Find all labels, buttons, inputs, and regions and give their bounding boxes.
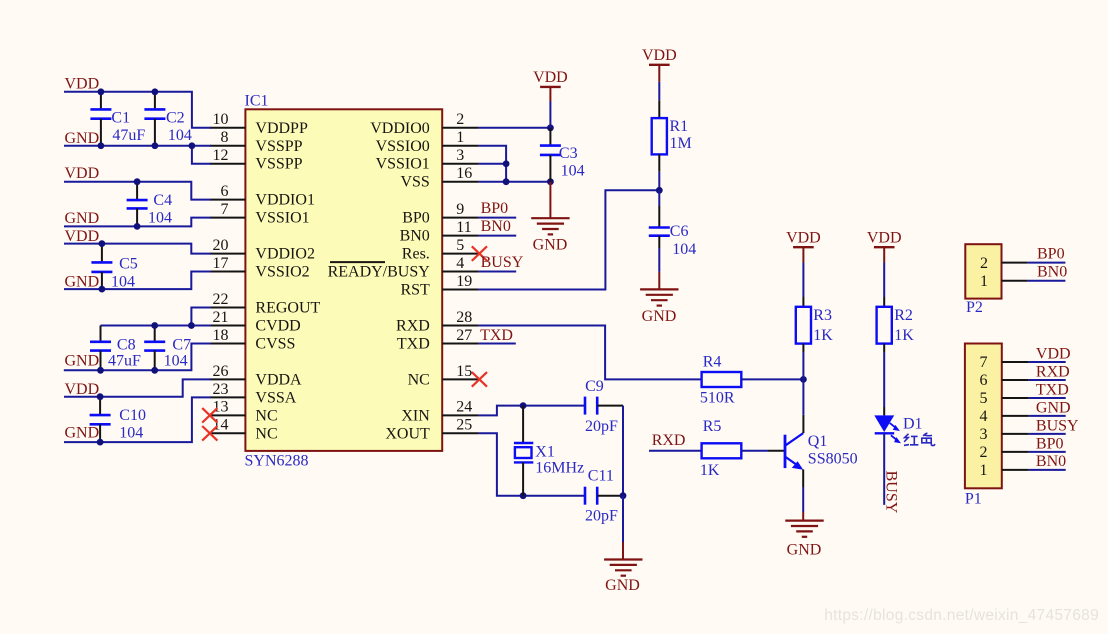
wire pin 1 down to pin 3 node bbox=[479, 146, 507, 164]
wire VDD to R1 bbox=[658, 82, 660, 101]
svg-text:VDD: VDD bbox=[786, 229, 821, 246]
svg-text:104: 104 bbox=[164, 353, 188, 370]
R2 labels bbox=[894, 307, 914, 344]
junction bbox=[134, 178, 141, 185]
lead R1 top bbox=[658, 100, 660, 118]
R3 labels bbox=[813, 307, 833, 344]
junction bbox=[98, 88, 105, 95]
C7 labels bbox=[164, 336, 191, 369]
svg-text:104: 104 bbox=[168, 127, 192, 144]
wire node to C6 bbox=[658, 190, 660, 206]
IC1 pin 9 (BP0) right bbox=[402, 201, 478, 227]
svg-text:VDDIO1: VDDIO1 bbox=[255, 192, 315, 209]
svg-text:28: 28 bbox=[456, 309, 472, 326]
svg-text:RXD: RXD bbox=[1036, 363, 1070, 380]
capacitor C11 bbox=[585, 487, 623, 505]
svg-text:26: 26 bbox=[213, 363, 229, 380]
wire VDD to R3 bbox=[802, 263, 804, 298]
ground symbol below C3 bbox=[531, 218, 569, 234]
junction X1 top bbox=[520, 402, 527, 409]
svg-text:6: 6 bbox=[980, 372, 988, 389]
IC1 pin 11 (BN0) right bbox=[400, 219, 479, 245]
junction bbox=[503, 178, 510, 185]
svg-text:C10: C10 bbox=[119, 407, 146, 424]
svg-text:1: 1 bbox=[980, 462, 988, 479]
svg-text:VSSA: VSSA bbox=[255, 389, 296, 406]
VDD power port above R2 bbox=[867, 229, 902, 247]
IC1 pin 6 (VDDIO1) left bbox=[210, 183, 315, 209]
lead Q1 base bbox=[768, 450, 784, 452]
P2 pin 1 net BN0 bbox=[980, 264, 1067, 291]
VDD power port above C3 bbox=[533, 69, 568, 87]
svg-text:4: 4 bbox=[980, 408, 988, 425]
svg-text:104: 104 bbox=[561, 162, 585, 179]
ground lead (maroon) bbox=[622, 542, 624, 560]
svg-text:20: 20 bbox=[213, 237, 229, 254]
no-connect X pin 13 bbox=[202, 408, 217, 423]
C11 labels bbox=[585, 468, 618, 525]
X1 labels bbox=[535, 444, 584, 477]
IC IC1 SYN6288 body bbox=[245, 109, 442, 451]
svg-text:17: 17 bbox=[213, 255, 229, 272]
svg-text:VSSIO2: VSSIO2 bbox=[255, 264, 309, 281]
svg-text:4: 4 bbox=[456, 255, 464, 272]
ground lead below C6 bbox=[658, 272, 660, 290]
svg-text:RST: RST bbox=[400, 282, 430, 299]
C3 labels bbox=[559, 145, 585, 179]
wire GND rail to pin 8 bbox=[64, 145, 211, 147]
junction bbox=[99, 286, 106, 293]
svg-text:TXD: TXD bbox=[397, 335, 430, 352]
READY/BUSY overline bbox=[330, 261, 385, 263]
C2 labels bbox=[166, 109, 192, 143]
svg-text:5: 5 bbox=[980, 390, 988, 407]
power lead VDD above R2 bbox=[883, 247, 885, 262]
wire R3 to collector node bbox=[802, 352, 804, 379]
capacitor C10 bbox=[90, 397, 111, 442]
svg-text:RXD: RXD bbox=[396, 317, 430, 334]
svg-text:C9: C9 bbox=[585, 378, 604, 395]
junction bbox=[97, 393, 104, 400]
wire RXD stub to R5 bbox=[649, 450, 702, 452]
capacitor C9 bbox=[585, 397, 623, 415]
svg-text:SS8050: SS8050 bbox=[808, 450, 858, 467]
P1 pin 2 net BP0 bbox=[980, 435, 1066, 461]
svg-text:1K: 1K bbox=[700, 462, 720, 479]
junction bbox=[189, 142, 196, 149]
crystal X1 bbox=[514, 406, 533, 496]
svg-text:BP0: BP0 bbox=[1036, 435, 1064, 452]
wire GND rail to pin 23 bbox=[64, 397, 211, 442]
ground lead below C3 bbox=[549, 182, 551, 218]
svg-text:C6: C6 bbox=[670, 223, 689, 240]
IC1 pin 27 (TXD) right bbox=[397, 327, 479, 353]
svg-text:C1: C1 bbox=[111, 109, 130, 126]
svg-text:27: 27 bbox=[456, 327, 472, 344]
svg-text:NC: NC bbox=[255, 425, 277, 442]
capacitor C2 bbox=[144, 92, 165, 146]
svg-text:R1: R1 bbox=[670, 118, 689, 135]
svg-text:REGOUT: REGOUT bbox=[255, 300, 320, 317]
junction bbox=[99, 240, 106, 247]
svg-text:13: 13 bbox=[213, 399, 229, 416]
wire R1 to node bbox=[658, 172, 660, 191]
svg-text:GND: GND bbox=[65, 273, 100, 290]
IC1 pin 2 (VDDIO0) right bbox=[370, 111, 478, 137]
lead R2 bottom bbox=[883, 344, 885, 352]
svg-text:VSSIO1: VSSIO1 bbox=[376, 156, 430, 173]
ground symbol below C6 bbox=[640, 289, 678, 305]
capacitor C5 bbox=[91, 244, 112, 290]
R4 labels bbox=[700, 354, 735, 407]
IC1 pin 19 (RST) right bbox=[400, 273, 478, 299]
IC1 pin 7 (VSSIO1) left bbox=[210, 201, 310, 227]
svg-text:C4: C4 bbox=[153, 192, 172, 209]
svg-text:GND: GND bbox=[605, 577, 640, 594]
wire collector node down bbox=[802, 379, 804, 414]
IC1 pin 16 (VSS) right bbox=[400, 165, 478, 191]
svg-text:21: 21 bbox=[213, 309, 229, 326]
svg-text:R5: R5 bbox=[703, 418, 722, 435]
svg-text:5: 5 bbox=[456, 237, 464, 254]
svg-text:VDD: VDD bbox=[65, 165, 100, 182]
svg-text:Q1: Q1 bbox=[808, 433, 828, 450]
wire VDD lead to pin2 node bbox=[549, 101, 551, 128]
svg-text:GND: GND bbox=[642, 308, 677, 325]
svg-text:47uF: 47uF bbox=[112, 127, 145, 144]
power lead VDD (maroon) bbox=[658, 65, 660, 82]
connector P1 body bbox=[965, 344, 1002, 489]
lead R1 bottom bbox=[658, 154, 660, 171]
wire D1 cathode down / net BUSY bbox=[883, 433, 885, 505]
svg-text:3: 3 bbox=[456, 147, 464, 164]
IC1 pin 20 (VDDIO2) left bbox=[210, 237, 315, 263]
svg-text:BP0: BP0 bbox=[402, 210, 430, 227]
IC1 pin 14 (NC) left bbox=[210, 417, 278, 443]
wire CVDD rail to pin 21 bbox=[191, 324, 210, 326]
svg-text:23: 23 bbox=[213, 381, 229, 398]
P1 pin 5 net TXD bbox=[980, 381, 1069, 407]
svg-text:20pF: 20pF bbox=[585, 508, 618, 525]
C4 labels bbox=[148, 192, 172, 226]
svg-text:VDD: VDD bbox=[867, 229, 902, 246]
P1 pin 4 net GND bbox=[980, 399, 1071, 425]
IC1 pin 26 (VDDA) left bbox=[210, 363, 302, 389]
svg-text:104: 104 bbox=[111, 273, 135, 290]
lead R3 bottom bbox=[802, 344, 804, 352]
capacitor C3 bbox=[540, 128, 561, 182]
transistor Q1 SS8050 bbox=[785, 433, 803, 470]
no-connect X pin 14 bbox=[202, 426, 217, 441]
wire down to ground lead bbox=[622, 496, 624, 542]
svg-text:READY/BUSY: READY/BUSY bbox=[328, 264, 431, 281]
svg-text:R2: R2 bbox=[894, 307, 913, 324]
junction C11/ground bbox=[620, 492, 627, 499]
P1 pin 1 net BN0 bbox=[980, 453, 1067, 479]
VDD power port above R1 bbox=[642, 47, 677, 65]
IC1 pin 13 (NC) left bbox=[210, 399, 278, 425]
wire pin 3 stub bbox=[479, 163, 507, 165]
svg-text:15: 15 bbox=[456, 363, 472, 380]
wire VDD rail to pin 6 bbox=[64, 182, 211, 200]
wire net BN0 stub bbox=[479, 235, 517, 237]
IC1 pin 8 (VSSPP) left bbox=[210, 129, 303, 155]
wire XOUT to C11/X1 bbox=[479, 433, 585, 495]
ground lead Q1 (maroon) bbox=[802, 512, 804, 521]
svg-text:D1: D1 bbox=[903, 416, 923, 433]
svg-text:10: 10 bbox=[213, 111, 229, 128]
wire VDD to R2 bbox=[883, 263, 885, 298]
no-connect X pin 5 bbox=[472, 246, 487, 261]
lead D1 anode bbox=[883, 407, 885, 415]
wire VDD rail to pin 20 bbox=[64, 244, 211, 254]
connector P2 body bbox=[965, 244, 1001, 298]
junction bbox=[98, 142, 105, 149]
resistor R2 bbox=[877, 307, 892, 344]
svg-text:BN0: BN0 bbox=[1036, 453, 1066, 470]
svg-text:104: 104 bbox=[148, 209, 172, 226]
svg-text:12: 12 bbox=[213, 147, 229, 164]
junction bbox=[134, 223, 141, 230]
svg-text:R3: R3 bbox=[813, 307, 832, 324]
wire net BUSY stub bbox=[479, 271, 517, 273]
R5 labels bbox=[700, 418, 721, 479]
svg-text:VDD: VDD bbox=[1036, 345, 1071, 362]
junction bbox=[503, 160, 510, 167]
svg-text:VDD: VDD bbox=[533, 69, 568, 86]
svg-text:P1: P1 bbox=[965, 490, 982, 507]
IC1 pin 22 (REGOUT) left bbox=[210, 291, 321, 317]
P1 pin 6 net RXD bbox=[980, 363, 1070, 389]
svg-text:8: 8 bbox=[221, 129, 229, 146]
svg-text:XIN: XIN bbox=[401, 407, 430, 424]
wire GND rail branch to pin 12 bbox=[192, 146, 211, 164]
wire emitter down bbox=[802, 487, 804, 512]
P1 pin 3 net BUSY bbox=[980, 417, 1080, 443]
IC1 pin 5 (Res.) right bbox=[402, 237, 479, 263]
svg-text:VDD: VDD bbox=[642, 47, 677, 64]
IC1 pin 12 (VSSPP) left bbox=[210, 147, 303, 173]
IC1 pin 10 (VDDPP) left bbox=[210, 111, 308, 137]
IC1 pin 25 (XOUT) right bbox=[385, 417, 478, 443]
svg-text:GND: GND bbox=[1036, 399, 1071, 416]
svg-text:VSSPP: VSSPP bbox=[255, 138, 302, 155]
svg-text:24: 24 bbox=[456, 399, 472, 416]
no-connect X pin 15 bbox=[472, 372, 487, 387]
capacitor C7 bbox=[144, 325, 165, 370]
junction bbox=[152, 88, 159, 95]
svg-text:BP0: BP0 bbox=[1037, 245, 1065, 262]
wire VDD rail to pin 26 bbox=[64, 379, 211, 396]
svg-text:https://blog.csdn.net/weixin_4: https://blog.csdn.net/weixin_47457689 bbox=[824, 607, 1099, 624]
svg-text:BUSY: BUSY bbox=[1036, 417, 1079, 434]
lead R2 top bbox=[883, 297, 885, 307]
svg-text:1: 1 bbox=[980, 273, 988, 290]
svg-text:VDD: VDD bbox=[65, 381, 100, 398]
svg-text:7: 7 bbox=[980, 354, 988, 371]
svg-text:BN0: BN0 bbox=[400, 228, 430, 245]
svg-text:BUSY: BUSY bbox=[481, 254, 524, 271]
svg-text:C8: C8 bbox=[117, 336, 136, 353]
svg-text:TXD: TXD bbox=[480, 327, 513, 344]
ground symbol below crystal bbox=[604, 560, 642, 576]
svg-text:16: 16 bbox=[456, 165, 472, 182]
wire R5 to Q1 base bbox=[741, 450, 768, 452]
svg-text:VSSIO0: VSSIO0 bbox=[376, 138, 430, 155]
Q1 labels bbox=[808, 433, 858, 467]
wire GND rail to pin 18 bbox=[64, 343, 211, 370]
resistor R3 bbox=[796, 307, 811, 344]
wire node down to VSS row bbox=[505, 164, 507, 182]
svg-text:2: 2 bbox=[980, 255, 988, 272]
junction bbox=[152, 142, 159, 149]
junction bbox=[151, 322, 158, 329]
svg-text:C5: C5 bbox=[119, 255, 138, 272]
svg-text:X1: X1 bbox=[535, 444, 555, 461]
C9 labels bbox=[585, 378, 618, 435]
svg-text:BN0: BN0 bbox=[481, 218, 511, 235]
svg-text:GND: GND bbox=[65, 210, 100, 227]
resistor R1 bbox=[652, 118, 667, 154]
IC1 pin 17 (VSSIO2) left bbox=[210, 255, 310, 281]
svg-text:NC: NC bbox=[408, 371, 430, 388]
P1 pin 7 net VDD bbox=[980, 345, 1071, 371]
C10 labels bbox=[119, 407, 146, 441]
svg-text:VSSPP: VSSPP bbox=[255, 156, 302, 173]
svg-text:2: 2 bbox=[980, 444, 988, 461]
svg-text:RXD: RXD bbox=[652, 432, 686, 449]
svg-text:P2: P2 bbox=[966, 299, 983, 316]
capacitor C8 bbox=[90, 325, 111, 370]
svg-text:1M: 1M bbox=[670, 135, 692, 152]
svg-text:C3: C3 bbox=[559, 145, 578, 162]
svg-text:Res.: Res. bbox=[402, 246, 430, 263]
svg-text:C2: C2 bbox=[166, 109, 185, 126]
svg-text:GND: GND bbox=[65, 425, 100, 442]
svg-text:C7: C7 bbox=[172, 336, 191, 353]
C8 labels bbox=[108, 336, 141, 369]
ground symbol below Q1 bbox=[785, 521, 823, 537]
capacitor C6 bbox=[649, 206, 670, 248]
IC1 pin 15 (NC) right bbox=[408, 363, 479, 389]
svg-text:VDD: VDD bbox=[65, 75, 100, 92]
wire R4 to Q1 collector node bbox=[741, 378, 803, 380]
C6 labels bbox=[670, 223, 697, 258]
lead Q1 collector bbox=[802, 415, 804, 433]
svg-text:C11: C11 bbox=[588, 468, 614, 485]
svg-text:VDDPP: VDDPP bbox=[255, 120, 308, 137]
svg-text:XOUT: XOUT bbox=[385, 425, 430, 442]
lead R3 top bbox=[802, 297, 804, 307]
IC1 pin 23 (VSSA) left bbox=[210, 381, 297, 407]
wire pin 16 VSS to C3 bottom bbox=[479, 181, 551, 183]
IC1 pin 4 (READY/BUSY) right bbox=[328, 255, 479, 281]
svg-text:TXD: TXD bbox=[1036, 381, 1069, 398]
svg-text:CVDD: CVDD bbox=[255, 317, 300, 334]
svg-text:IC1: IC1 bbox=[245, 93, 269, 110]
svg-text:NC: NC bbox=[255, 407, 277, 424]
wire VDD rail to pin 10 bbox=[64, 92, 211, 128]
svg-text:7: 7 bbox=[221, 201, 229, 218]
IC1 pin 3 (VSSIO1) right bbox=[376, 147, 479, 173]
junction R1/C6/RST node bbox=[656, 187, 663, 194]
wire XIN to C9/X1 bbox=[479, 406, 585, 416]
svg-text:16MHz: 16MHz bbox=[535, 459, 584, 476]
wire net BP0 stub bbox=[479, 217, 517, 219]
svg-text:2: 2 bbox=[456, 111, 464, 128]
wire net TXD stub bbox=[479, 342, 516, 344]
capacitor C1 bbox=[90, 92, 111, 146]
junction bbox=[97, 367, 104, 374]
svg-text:VDDA: VDDA bbox=[255, 371, 302, 388]
svg-text:25: 25 bbox=[456, 417, 472, 434]
svg-text:CVSS: CVSS bbox=[255, 335, 295, 352]
power lead VDD above R3 bbox=[802, 247, 804, 262]
svg-text:510R: 510R bbox=[700, 389, 735, 406]
resistor R4 bbox=[702, 372, 742, 387]
junction bbox=[547, 124, 554, 131]
IC1 pin 18 (CVSS) left bbox=[210, 327, 296, 353]
svg-text:R4: R4 bbox=[703, 354, 722, 371]
IC1 pin 1 (VSSIO0) right bbox=[376, 129, 479, 155]
wire GND rail to pin 17 bbox=[64, 272, 211, 290]
D1 labels (D1 / red color) bbox=[903, 416, 935, 446]
IC1 pin 21 (CVDD) left bbox=[210, 309, 301, 335]
svg-text:VDDIO2: VDDIO2 bbox=[255, 246, 315, 263]
junction bbox=[97, 439, 104, 446]
wire pin 22 to CVDD rail bbox=[101, 308, 211, 326]
R1 labels bbox=[670, 118, 692, 152]
svg-text:1: 1 bbox=[456, 129, 464, 146]
wire pin 28 to R4 bbox=[479, 325, 702, 379]
power lead VDD to C3 node (maroon) bbox=[549, 87, 551, 101]
svg-text:GND: GND bbox=[787, 541, 822, 558]
svg-text:GND: GND bbox=[533, 236, 568, 253]
svg-text:SYN6288: SYN6288 bbox=[245, 453, 309, 470]
svg-text:VDD: VDD bbox=[65, 228, 100, 245]
lead Q1 emitter bbox=[802, 469, 804, 487]
svg-text:1K: 1K bbox=[813, 327, 833, 344]
junction X1 bottom bbox=[520, 492, 527, 499]
svg-text:47uF: 47uF bbox=[108, 353, 141, 370]
svg-text:BP0: BP0 bbox=[481, 200, 509, 217]
svg-text:104: 104 bbox=[119, 425, 143, 442]
svg-text:22: 22 bbox=[213, 291, 229, 308]
svg-text:GND: GND bbox=[65, 130, 100, 147]
wire GND rail to pin 7 bbox=[64, 218, 211, 227]
junction bbox=[547, 178, 554, 185]
svg-text:GND: GND bbox=[65, 353, 100, 370]
C5 labels bbox=[111, 255, 138, 290]
capacitor C4 bbox=[127, 182, 148, 227]
svg-text:BN0: BN0 bbox=[1037, 264, 1067, 281]
svg-text:9: 9 bbox=[456, 201, 464, 218]
svg-text:104: 104 bbox=[672, 241, 696, 258]
svg-text:VDDIO0: VDDIO0 bbox=[370, 120, 430, 137]
svg-text:11: 11 bbox=[456, 219, 471, 236]
svg-text:VSSIO1: VSSIO1 bbox=[255, 210, 309, 227]
C1 labels bbox=[111, 109, 145, 143]
P2 pin 2 net BP0 bbox=[980, 245, 1065, 272]
junction R3/R4/collector bbox=[800, 376, 807, 383]
svg-text:BUSY: BUSY bbox=[883, 471, 900, 514]
junction bbox=[188, 322, 195, 329]
svg-text:3: 3 bbox=[980, 426, 988, 443]
wire pin 2 to C3/VDD node bbox=[479, 127, 551, 129]
IC1 pin 24 (XIN) right bbox=[401, 399, 478, 425]
VDD power port above R3 bbox=[786, 229, 821, 247]
wire RST to R1/C6 node bbox=[479, 190, 660, 289]
